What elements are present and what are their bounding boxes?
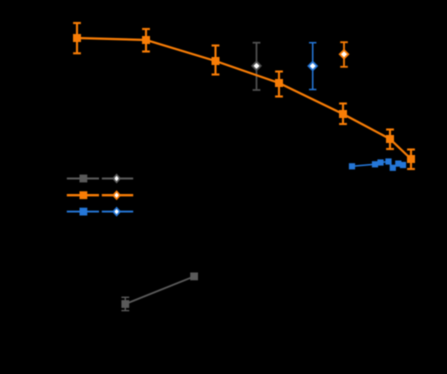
gray series point 1 error bar — [121, 297, 129, 310]
blue diamond error bar — [309, 43, 316, 90]
orange point 7 marker — [407, 155, 415, 163]
orange point 6 marker — [386, 135, 394, 143]
blue point 5 marker — [390, 165, 396, 171]
orange point 1 marker — [73, 34, 81, 42]
orange point 6 error bar — [386, 130, 394, 150]
blue point 1 marker — [349, 163, 355, 169]
blue diamond marker — [307, 61, 318, 72]
gray series point 1 marker — [121, 300, 129, 308]
orange point 1 error bar — [73, 23, 81, 53]
gray diamond error bar — [253, 43, 261, 90]
orange point 4 marker — [275, 79, 283, 87]
blue point 6 marker — [395, 161, 401, 167]
legend row 1 gray line with diamond — [102, 174, 133, 184]
orange point 2 error bar — [142, 29, 150, 52]
orange point 5 error bar — [339, 104, 347, 125]
orange point 3 error bar — [212, 46, 220, 75]
blue point 4 marker — [385, 158, 391, 164]
orange point 4 error bar — [275, 72, 283, 97]
orange point 7 error bar — [407, 150, 415, 170]
legend row 2 orange line with diamond — [102, 190, 133, 200]
blue point 2 marker — [372, 161, 378, 167]
gray diamond marker — [251, 60, 262, 71]
orange point 3 marker — [212, 57, 220, 65]
orange diamond error bar — [340, 42, 348, 67]
gray series point 2 marker — [190, 273, 198, 281]
blue point 3 marker — [377, 159, 383, 165]
blue series line — [352, 162, 403, 168]
orange series line — [77, 38, 411, 159]
legend row 1 gray line with square — [67, 175, 99, 183]
gray series line (bottom) — [125, 276, 194, 304]
legend row 2 orange line with square — [67, 191, 99, 199]
legend row 3 blue line with diamond — [102, 207, 133, 217]
orange point 5 marker — [339, 110, 347, 118]
orange diamond marker — [339, 49, 350, 60]
legend row 3 blue line with square — [67, 208, 99, 216]
blue point 7 marker — [400, 162, 406, 168]
orange point 2 marker — [142, 36, 150, 44]
